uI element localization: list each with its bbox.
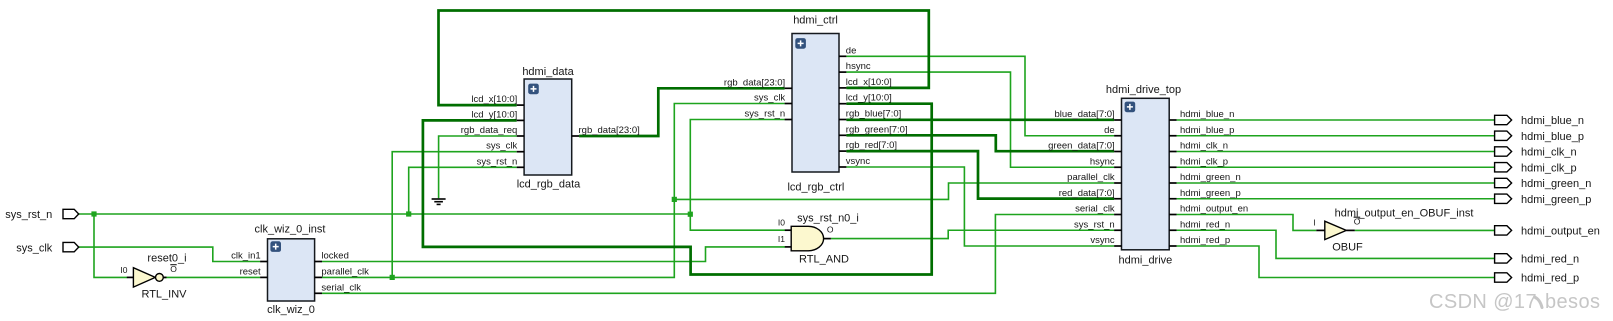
junction sys_rst_n at port <box>91 211 96 216</box>
svg-text:hdmi_data: hdmi_data <box>522 66 574 78</box>
svg-text:I: I <box>1313 218 1315 228</box>
svg-text:I1: I1 <box>778 234 785 244</box>
output port hdmi_blue_n <box>1495 115 1512 124</box>
wire net de hdmi_ctrl to hdmi_drive <box>846 56 1114 135</box>
wire hdmi_clk_n to port <box>1177 151 1495 153</box>
svg-text:RTL_AND: RTL_AND <box>799 254 849 266</box>
wire parallel_clk branch to hdmi_drive parallel_clk <box>674 183 1114 199</box>
junction parallel_clk at x674 <box>672 197 677 202</box>
svg-text:lcd_rgb_data: lcd_rgb_data <box>517 179 581 191</box>
svg-text:hdmi_red_p: hdmi_red_p <box>1521 272 1579 284</box>
svg-text:de: de <box>1104 125 1115 136</box>
svg-text:hdmi_green_n: hdmi_green_n <box>1521 178 1591 190</box>
block hdmi_drive_top (hdmi_drive) <box>1114 98 1177 250</box>
svg-text:rgb_blue[7:0]: rgb_blue[7:0] <box>846 109 901 120</box>
junction parallel_clk at x392 <box>390 275 395 280</box>
bus lcd_x[10:0] hdmi_ctrl to hdmi_data top loop <box>439 11 929 106</box>
svg-text:lcd_y[10:0]: lcd_y[10:0] <box>846 93 892 104</box>
output port hdmi_clk_n <box>1495 147 1512 156</box>
svg-text:sys_rst_n: sys_rst_n <box>477 156 518 167</box>
svg-text:clk_in1: clk_in1 <box>231 251 261 262</box>
svg-text:I0: I0 <box>120 265 127 275</box>
wire parallel_clk branch to hdmi_data sys_clk <box>392 152 517 278</box>
wire net hsync hdmi_ctrl to hdmi_drive <box>846 72 1114 167</box>
wire net sys_rst_n0_i RTL_AND output to hdmi_drive sys_rst_n <box>831 230 1114 238</box>
buffer hdmi_output_en_OBUF_inst OBUF <box>1316 221 1355 239</box>
svg-text:hdmi_blue_p: hdmi_blue_p <box>1180 125 1234 136</box>
svg-text:hsync: hsync <box>846 61 871 72</box>
svg-text:hsync: hsync <box>1090 156 1115 167</box>
svg-text:hdmi_clk_p: hdmi_clk_p <box>1521 162 1577 174</box>
watermark CSDN @17 besos <box>1429 291 1600 313</box>
junction sys_rst_n at x690 <box>688 212 693 217</box>
block hdmi_ctrl (lcd_rgb_ctrl) <box>785 34 847 173</box>
svg-text:O: O <box>1354 217 1361 227</box>
svg-text:green_data[7:0]: green_data[7:0] <box>1048 141 1115 152</box>
wire net locked to RTL_AND I1 <box>322 247 785 262</box>
svg-text:CSDN @17: CSDN @17 <box>1429 291 1537 313</box>
svg-text:hdmi_output_en: hdmi_output_en <box>1521 225 1600 237</box>
svg-text:clk_wiz_0: clk_wiz_0 <box>267 304 315 316</box>
wire hdmi_red_p to port <box>1177 246 1495 278</box>
svg-text:hdmi_clk_p: hdmi_clk_p <box>1180 156 1228 167</box>
wire hdmi_blue_n to port <box>1177 119 1495 121</box>
wire hdmi_red_n to port <box>1177 230 1495 258</box>
input port sys_rst_n <box>63 209 79 218</box>
wire hdmi_clk_p to port <box>1177 166 1495 168</box>
wire net parallel_clk main run <box>322 104 785 278</box>
wire hdmi_blue_p to port <box>1177 135 1495 137</box>
svg-text:hdmi_drive_top: hdmi_drive_top <box>1106 84 1181 96</box>
wire hdmi_green_n to port <box>1177 182 1495 184</box>
svg-text:reset: reset <box>240 266 261 277</box>
svg-text:hdmi_clk_n: hdmi_clk_n <box>1180 141 1228 152</box>
output port hdmi_blue_p <box>1495 131 1512 140</box>
wire net sys_rst_n main run <box>79 213 691 215</box>
svg-text:O: O <box>170 264 177 274</box>
wire sys_rst_n branch to hdmi_data sys_rst_n <box>409 167 517 214</box>
output port hdmi_green_n <box>1495 178 1512 187</box>
svg-text:hdmi_clk_n: hdmi_clk_n <box>1521 147 1577 159</box>
svg-text:sys_clk: sys_clk <box>486 141 517 152</box>
svg-text:hdmi_blue_n: hdmi_blue_n <box>1180 109 1234 120</box>
output port hdmi_red_n <box>1495 254 1512 263</box>
svg-text:de: de <box>846 45 857 56</box>
block hdmi_data (lcd_rgb_data) <box>517 79 579 175</box>
svg-text:hdmi_red_n: hdmi_red_n <box>1180 219 1230 230</box>
bus rgb_blue[7:0] to blue_data[7:0] <box>846 118 1114 121</box>
svg-text:lcd_x[10:0]: lcd_x[10:0] <box>471 94 517 105</box>
wire sys_rst_n vertical to hdmi_ctrl sys_rst_n and RTL_AND I0 <box>690 120 785 231</box>
wire rgb_data_req to ground <box>439 136 517 198</box>
output port hdmi_clk_p <box>1495 163 1512 172</box>
input port sys_clk <box>63 242 79 251</box>
svg-text:sys_rst_n: sys_rst_n <box>1074 219 1115 230</box>
wire sys_rst_n branch to RTL_INV I0 <box>94 214 127 277</box>
wire reset0_i RTL_INV output to clk_wiz reset <box>163 276 260 278</box>
svg-text:lcd_y[10:0]: lcd_y[10:0] <box>471 109 517 120</box>
svg-text:sys_rst_n: sys_rst_n <box>745 109 786 120</box>
svg-text:hdmi_drive: hdmi_drive <box>1118 255 1172 267</box>
svg-text:sys_rst_n0_i: sys_rst_n0_i <box>797 213 859 225</box>
svg-text:blue_data[7:0]: blue_data[7:0] <box>1054 109 1114 120</box>
svg-text:lcd_x[10:0]: lcd_x[10:0] <box>846 77 892 88</box>
svg-text:hdmi_blue_n: hdmi_blue_n <box>1521 115 1584 127</box>
wire hdmi_output_en to OBUF input <box>1177 215 1317 231</box>
wire net vsync hdmi_ctrl to hdmi_drive <box>846 167 1114 246</box>
wire net serial_clk to hdmi_drive serial_clk <box>322 215 1114 294</box>
svg-text:serial_clk: serial_clk <box>1075 204 1115 215</box>
svg-text:rgb_data[23:0]: rgb_data[23:0] <box>724 77 785 88</box>
svg-text:vsync: vsync <box>1090 235 1115 246</box>
output port hdmi_red_p <box>1495 273 1512 282</box>
svg-text:locked: locked <box>321 251 348 262</box>
svg-text:red_data[7:0]: red_data[7:0] <box>1059 188 1115 199</box>
svg-text:sys_rst_n: sys_rst_n <box>5 209 52 221</box>
svg-text:hdmi_green_p: hdmi_green_p <box>1521 194 1591 206</box>
svg-text:I0: I0 <box>778 218 785 228</box>
svg-text:O: O <box>827 225 834 235</box>
svg-text:serial_clk: serial_clk <box>321 282 361 293</box>
svg-text:rgb_red[7:0]: rgb_red[7:0] <box>846 140 897 151</box>
ground symbol <box>432 199 446 204</box>
wire hdmi_green_p to port <box>1177 198 1495 200</box>
svg-text:sys_clk: sys_clk <box>754 93 785 104</box>
svg-text:RTL_INV: RTL_INV <box>141 289 187 301</box>
svg-text:OBUF: OBUF <box>1332 241 1363 253</box>
svg-text:hdmi_blue_p: hdmi_blue_p <box>1521 131 1584 143</box>
svg-text:lcd_rgb_ctrl: lcd_rgb_ctrl <box>787 182 844 194</box>
svg-text:clk_wiz_0_inst: clk_wiz_0_inst <box>255 224 326 236</box>
svg-text:sys_clk: sys_clk <box>16 242 53 254</box>
svg-text:rgb_green[7:0]: rgb_green[7:0] <box>846 124 908 135</box>
block clk_wiz_0_inst (clk_wiz_0) <box>260 239 322 301</box>
wire net sys_clk port to clk_wiz clk_in1 <box>79 247 260 261</box>
bus rgb_red[7:0] to red_data[7:0] <box>846 151 1114 199</box>
and-gate sys_rst_n0_i RTL_AND <box>785 226 831 251</box>
svg-text:parallel_clk: parallel_clk <box>1067 172 1115 183</box>
output port hdmi_output_en <box>1495 226 1512 235</box>
junction sys_rst_n at x408 <box>406 211 411 216</box>
bus rgb_data[23:0] hdmi_data to hdmi_ctrl <box>579 88 785 136</box>
svg-text:hdmi_red_n: hdmi_red_n <box>1521 253 1579 265</box>
svg-text:reset0_i: reset0_i <box>147 253 186 265</box>
svg-text:hdmi_ctrl: hdmi_ctrl <box>793 15 838 27</box>
output port hdmi_green_p <box>1495 194 1512 203</box>
svg-text:rgb_data_req: rgb_data_req <box>461 125 518 136</box>
svg-text:hdmi_output_en: hdmi_output_en <box>1180 204 1248 215</box>
svg-text:besos: besos <box>1545 291 1600 313</box>
svg-text:hdmi_red_p: hdmi_red_p <box>1180 235 1230 246</box>
wire OBUF output to port hdmi_output_en <box>1355 229 1495 231</box>
svg-text:parallel_clk: parallel_clk <box>321 266 369 277</box>
bus rgb_green[7:0] to green_data[7:0] <box>846 135 1114 151</box>
svg-text:hdmi_green_p: hdmi_green_p <box>1180 188 1241 199</box>
svg-text:vsync: vsync <box>846 156 871 167</box>
svg-text:rgb_data[23:0]: rgb_data[23:0] <box>579 125 640 136</box>
svg-text:hdmi_green_n: hdmi_green_n <box>1180 172 1241 183</box>
inverter reset0_i RTL_INV <box>127 268 167 287</box>
bus lcd_y[10:0] hdmi_ctrl to hdmi_data <box>423 104 932 275</box>
